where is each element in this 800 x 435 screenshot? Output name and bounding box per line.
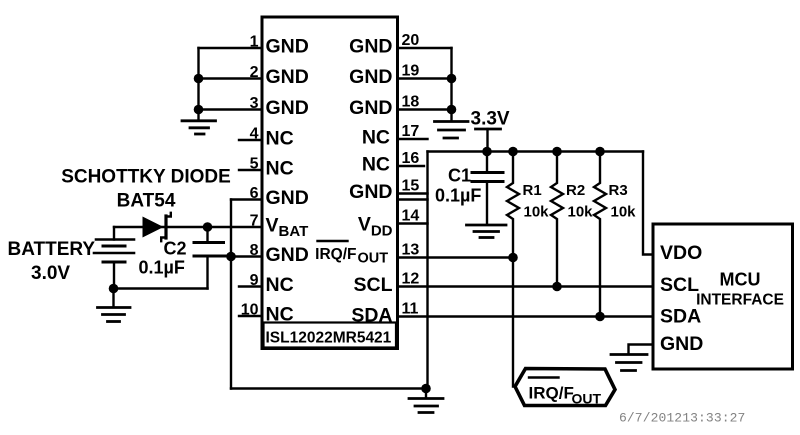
wire gnd bracket vertical pin6 to bottom rail bbox=[230, 200, 232, 389]
overline IRQ flag bbox=[529, 376, 559, 378]
svg-text:NC: NC bbox=[266, 158, 294, 180]
pin 19 wire GND bbox=[398, 77, 452, 79]
svg-text:5: 5 bbox=[250, 156, 259, 173]
pin name labels left column bbox=[266, 36, 309, 326]
wire pin15 box top line bbox=[398, 198, 428, 200]
pin 9 stub NC bbox=[239, 285, 262, 287]
svg-text:GND: GND bbox=[349, 36, 392, 58]
svg-text:BATTERY: BATTERY bbox=[8, 239, 96, 260]
svg-text:BAT54: BAT54 bbox=[117, 191, 176, 212]
node junction bottom rail gnd bbox=[421, 384, 431, 394]
svg-text:SDA: SDA bbox=[660, 306, 701, 328]
wire left gnd bracket vertical bbox=[197, 48, 199, 120]
node junction rail R1 bbox=[508, 147, 518, 157]
svg-text:C1: C1 bbox=[448, 166, 471, 186]
svg-text:0.1µF: 0.1µF bbox=[139, 258, 185, 278]
svg-text:3: 3 bbox=[250, 95, 259, 112]
svg-text:16: 16 bbox=[402, 150, 420, 167]
svg-text:MCU: MCU bbox=[720, 270, 761, 290]
ground G5 under IC bbox=[409, 389, 443, 413]
svg-text:NC: NC bbox=[362, 154, 390, 176]
wire pin2 to gnd bracket bbox=[199, 77, 263, 79]
svg-text:18: 18 bbox=[402, 94, 420, 111]
svg-text:NC: NC bbox=[266, 128, 294, 150]
svg-text:8: 8 bbox=[250, 242, 259, 259]
node junction R3 SDA bbox=[595, 312, 605, 322]
battery BT1 3.0V bbox=[94, 227, 134, 289]
wire IRQ drop to flag bbox=[513, 258, 515, 387]
pin 4 stub NC bbox=[239, 139, 262, 141]
diode D1 BAT54 schottky bbox=[143, 213, 171, 241]
ground G6 MCU bbox=[611, 355, 647, 371]
ground G3 pins18-20 bbox=[435, 122, 469, 139]
svg-text:13: 13 bbox=[402, 242, 420, 259]
svg-text:0.1µF: 0.1µF bbox=[435, 186, 481, 206]
pin 10 stub NC bbox=[239, 315, 262, 317]
svg-text:GND: GND bbox=[266, 97, 309, 119]
pin 17 stub NC bbox=[398, 138, 428, 140]
node junction rail R3 bbox=[595, 147, 605, 157]
node junction battery bottom bbox=[109, 284, 119, 294]
svg-text:GND: GND bbox=[266, 187, 309, 209]
node junction rail R2 bbox=[552, 147, 562, 157]
svg-text:7: 7 bbox=[250, 213, 259, 230]
svg-text:R1: R1 bbox=[523, 182, 542, 199]
resistor R1 10k bbox=[507, 152, 519, 258]
svg-text:12: 12 bbox=[402, 271, 420, 288]
svg-text:IRQ/F: IRQ/F bbox=[315, 246, 356, 263]
svg-text:10k: 10k bbox=[524, 204, 550, 221]
svg-text:9: 9 bbox=[250, 272, 259, 289]
MCU interface box bbox=[653, 224, 793, 369]
svg-text:17: 17 bbox=[402, 123, 420, 140]
svg-text:ISL12022MR5421: ISL12022MR5421 bbox=[266, 330, 392, 347]
svg-text:GND: GND bbox=[266, 66, 309, 88]
capacitor C1 0.1uF bbox=[472, 152, 503, 224]
svg-text:SCL: SCL bbox=[660, 274, 699, 296]
svg-text:15: 15 bbox=[402, 178, 420, 195]
node junction pin19 gnd bbox=[447, 74, 457, 84]
svg-text:6: 6 bbox=[250, 185, 259, 202]
pin name labels right column bbox=[315, 36, 393, 327]
wire SCL pin12 bbox=[398, 285, 654, 287]
svg-text:6/7/201213:33:27: 6/7/201213:33:27 bbox=[619, 411, 745, 426]
node junction pin2 gnd bbox=[194, 74, 204, 84]
svg-text:GND: GND bbox=[266, 244, 309, 266]
resistor R3 10k bbox=[594, 152, 606, 317]
pin 18 wire GND bbox=[398, 108, 452, 110]
svg-text:3.0V: 3.0V bbox=[31, 263, 70, 284]
svg-text:NC: NC bbox=[266, 304, 294, 326]
svg-text:NC: NC bbox=[266, 274, 294, 296]
overline IRQ pin13 label bbox=[318, 240, 348, 242]
part number box bbox=[264, 323, 397, 348]
node junction C2 top bbox=[203, 222, 213, 232]
IRQ/FOUT flag bbox=[515, 369, 615, 406]
node junction R1 IRQ bbox=[508, 253, 518, 263]
pin 8 wire GND bbox=[228, 255, 262, 257]
svg-text:19: 19 bbox=[402, 63, 420, 80]
svg-text:20: 20 bbox=[402, 32, 420, 49]
wire MCU GND stub bbox=[629, 345, 654, 354]
wire vdd/gnd vertical at 427.5 bbox=[426, 152, 428, 389]
pin number labels left bbox=[241, 34, 259, 319]
svg-text:NC: NC bbox=[362, 127, 390, 149]
wire right gnd bracket vertical bbox=[450, 48, 452, 120]
svg-text:1: 1 bbox=[250, 34, 259, 51]
svg-text:R3: R3 bbox=[609, 182, 628, 199]
wire VDD rail 3.3V bbox=[428, 150, 644, 152]
wire IRQ/FOUT pin13 bbox=[398, 256, 514, 258]
svg-text:R2: R2 bbox=[566, 182, 585, 199]
wire bottom rail bbox=[231, 387, 426, 389]
pin 16 stub NC bbox=[398, 165, 425, 167]
svg-text:C2: C2 bbox=[164, 239, 187, 259]
pin 6 wire GND to bracket bbox=[231, 198, 262, 200]
wire rail to VDO elbow bbox=[643, 152, 653, 255]
svg-text:4: 4 bbox=[250, 126, 259, 143]
pin number labels right bbox=[402, 32, 420, 318]
pin 20 wire GND bbox=[398, 47, 452, 49]
svg-text:SDA: SDA bbox=[351, 305, 392, 327]
svg-text:GND: GND bbox=[349, 97, 392, 119]
ground G4 C1 bbox=[467, 225, 507, 238]
pin 15 stub GND bbox=[398, 192, 428, 194]
node junction R2 SCL bbox=[552, 282, 562, 292]
node junction pin3 gnd bbox=[194, 105, 204, 115]
ground G1 pins1-3 bbox=[182, 121, 216, 134]
svg-text:GND: GND bbox=[266, 36, 309, 58]
pin 14 stub VDD bbox=[398, 222, 428, 224]
svg-text:10k: 10k bbox=[568, 204, 594, 221]
ground G2 battery bbox=[98, 289, 131, 322]
svg-text:GND: GND bbox=[660, 333, 703, 355]
node junction pin18 gnd bbox=[447, 105, 457, 115]
wire VBAT from battery through diode to pin 7 bbox=[114, 226, 262, 228]
svg-text:11: 11 bbox=[402, 301, 419, 318]
svg-text:SCL: SCL bbox=[354, 274, 393, 296]
op-amp U1 IC body ISL12022MR5421 bbox=[262, 17, 398, 349]
svg-text:10: 10 bbox=[241, 302, 259, 319]
svg-text:IRQ/F: IRQ/F bbox=[529, 384, 574, 403]
svg-text:14: 14 bbox=[402, 208, 420, 225]
svg-text:2: 2 bbox=[250, 64, 259, 81]
svg-text:10k: 10k bbox=[611, 204, 637, 221]
power 3.3V symbol bbox=[476, 129, 501, 152]
pin 5 stub NC bbox=[239, 169, 262, 171]
wire SDA pin11 bbox=[398, 315, 654, 317]
svg-text:3.3V: 3.3V bbox=[471, 109, 510, 130]
svg-text:INTERFACE: INTERFACE bbox=[696, 292, 784, 309]
capacitor C2 0.1uF bbox=[194, 227, 228, 289]
svg-text:VDO: VDO bbox=[660, 242, 702, 264]
svg-text:OUT: OUT bbox=[572, 391, 602, 407]
wire battery to C2 bottom bbox=[114, 287, 208, 289]
svg-text:GND: GND bbox=[349, 181, 392, 203]
svg-text:OUT: OUT bbox=[358, 251, 389, 267]
resistor R2 10k bbox=[551, 152, 563, 287]
svg-text:SCHOTTKY DIODE: SCHOTTKY DIODE bbox=[61, 167, 231, 188]
wire pin1 to gnd bracket bbox=[199, 47, 263, 49]
node junction pin8 gnd bracket bbox=[226, 252, 236, 262]
wire pin3 to gnd bracket bbox=[199, 108, 263, 110]
svg-text:GND: GND bbox=[349, 66, 392, 88]
node junction rail C1/3.3V bbox=[482, 147, 492, 157]
